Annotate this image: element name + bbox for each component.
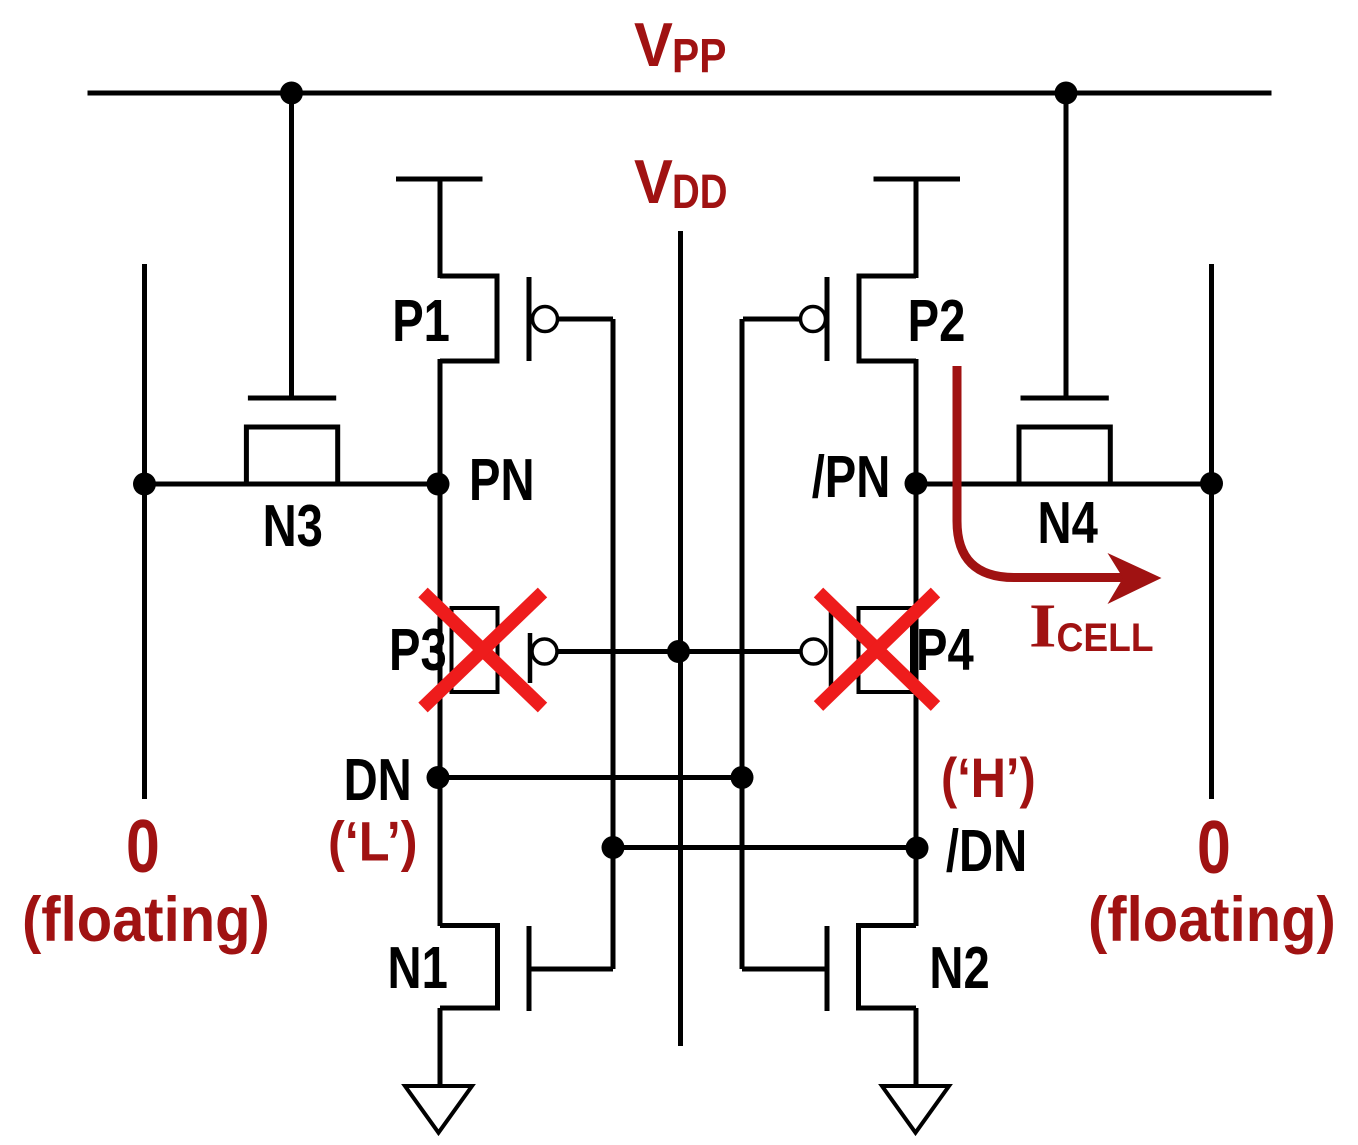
svg-text:V: V	[634, 147, 673, 216]
svg-text:P3: P3	[389, 618, 447, 683]
wire DN cross line	[440, 775, 742, 780]
wire PN column	[438, 359, 443, 926]
label VPP	[634, 10, 726, 82]
svg-text:DD: DD	[672, 166, 727, 219]
ground symbol under N1	[405, 1086, 472, 1133]
svg-text:V: V	[634, 10, 673, 79]
svg-text:I: I	[1029, 592, 1057, 660]
junction dot DN to P2/N2 gate line	[731, 766, 754, 789]
node /DN	[906, 837, 929, 860]
svg-text:PP: PP	[672, 30, 726, 83]
junction dot /DN to P1/N1 gate line	[602, 836, 625, 859]
wire cross-couple right (P2/N2 gates to DN)	[740, 319, 745, 969]
transistor P3 gate bar	[528, 633, 533, 683]
bubble P4 gate	[801, 639, 826, 664]
node PN	[427, 473, 450, 496]
svg-text:PN: PN	[469, 448, 535, 513]
transistor N4	[1019, 398, 1110, 484]
junction dot left rail	[133, 473, 156, 496]
junction dot VDD to P3/P4 gates	[667, 640, 690, 663]
transistor P1	[396, 179, 529, 361]
transistor P4 body box	[859, 608, 913, 692]
bubble P3 gate	[532, 639, 557, 664]
node DN	[427, 766, 450, 789]
bubble P2 gate	[801, 307, 826, 332]
svg-text:(‘H’): (‘H’)	[941, 747, 1036, 810]
junction dot right rail	[1200, 472, 1223, 495]
wire VPP to N3 gate	[289, 93, 294, 396]
svg-text:(‘L’): (‘L’)	[328, 811, 418, 873]
wire /PN column	[914, 359, 919, 926]
arrow ICELL current path	[957, 366, 1162, 604]
X mark over P3	[423, 593, 543, 708]
wire VDD line	[678, 231, 683, 1046]
wire /PN node to right rail	[914, 482, 1214, 487]
transistor N3	[246, 398, 337, 484]
wire VPP to N4 gate	[1064, 93, 1069, 396]
label VDD	[634, 147, 727, 219]
wire P3/P4 gates to VDD	[557, 649, 800, 654]
svg-text:CELL: CELL	[1057, 616, 1154, 661]
junction dot VPP right	[1055, 82, 1078, 105]
svg-text:(floating): (floating)	[1088, 884, 1336, 955]
transistor P3 body box	[452, 608, 498, 692]
svg-text:P2: P2	[908, 289, 966, 354]
label ICELL	[1029, 592, 1154, 660]
svg-text:(floating): (floating)	[22, 884, 270, 955]
svg-text:/PN: /PN	[812, 445, 891, 510]
wire cross-couple left (P1/N1 gates to /DN)	[611, 319, 616, 969]
transistor P4 gate bar	[829, 611, 834, 688]
svg-text:P1: P1	[392, 289, 450, 354]
svg-text:N4: N4	[1038, 491, 1099, 556]
svg-text:P4: P4	[916, 618, 974, 683]
node /PN	[905, 472, 928, 495]
wire VPP rail	[88, 91, 1272, 96]
transistor N1	[440, 926, 613, 1086]
svg-text:0: 0	[126, 805, 160, 889]
svg-text:/DN: /DN	[946, 819, 1027, 884]
svg-text:N2: N2	[929, 936, 989, 1001]
wire left bit line rail	[142, 264, 147, 799]
junction dot VPP left	[280, 82, 303, 105]
svg-text:DN: DN	[344, 748, 412, 813]
svg-text:0: 0	[1197, 806, 1231, 890]
svg-text:N1: N1	[388, 936, 448, 1001]
wire left rail to PN node	[142, 482, 442, 487]
wire P2 gate to cross-couple line	[743, 317, 799, 322]
X mark over P4	[819, 593, 936, 707]
svg-text:N3: N3	[263, 494, 323, 559]
transistor N2	[742, 926, 916, 1086]
wire /DN cross line	[613, 845, 916, 850]
bubble P1 gate	[533, 307, 558, 332]
transistor P2	[827, 179, 960, 361]
ground symbol under N2	[882, 1086, 949, 1133]
wire P1 gate to cross-couple line	[557, 317, 613, 322]
wire right bit line rail	[1209, 264, 1214, 799]
